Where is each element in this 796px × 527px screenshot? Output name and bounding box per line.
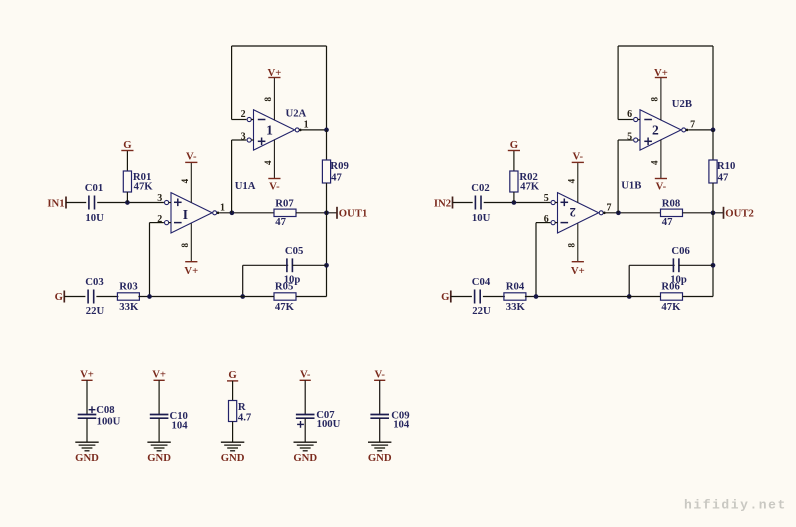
svg-text:R09: R09 (330, 160, 348, 172)
svg-text:22U: 22U (472, 305, 491, 317)
svg-text:U1A: U1A (235, 180, 256, 192)
port bar OUT2 (723, 207, 725, 219)
svg-text:5: 5 (544, 193, 549, 204)
resistor R05 (274, 281, 296, 313)
wire G to R (232, 381, 234, 401)
wire R05 to column (296, 296, 327, 298)
wire V+ to C10 (158, 380, 160, 414)
output pin 1 marker of U1A (213, 211, 220, 215)
node U1B output (616, 210, 621, 215)
wire U2A pin 4 to V- (273, 140, 275, 179)
svg-text:V+: V+ (571, 265, 585, 277)
power port V+ (V+ above U2A) (267, 67, 281, 79)
wire U2B pin 5 down to U1B output (617, 140, 619, 213)
svg-text:2: 2 (241, 109, 246, 120)
wire U1B pin 8 to V+ (577, 223, 579, 261)
wire C08 to GND (86, 418, 88, 442)
wire U1B out to R08 (606, 212, 661, 214)
svg-text:6: 6 (627, 109, 632, 120)
wire R04 to feedback node (525, 296, 661, 298)
node IN2J at R02 (512, 200, 517, 205)
svg-text:IN2: IN2 (434, 197, 451, 209)
wire feedback to U2B pin 6 (618, 119, 633, 121)
wire C05 left (243, 264, 289, 266)
wire C06 left (629, 264, 675, 266)
svg-text:OUT2: OUT2 (725, 207, 754, 219)
wire R07 to OUT1 (296, 212, 337, 214)
svg-text:R04: R04 (506, 281, 525, 293)
svg-text:47: 47 (275, 216, 286, 228)
svg-text:1: 1 (266, 123, 273, 138)
wire to U2A pin 3 (232, 139, 247, 141)
svg-text:GND: GND (368, 452, 392, 464)
svg-text:10U: 10U (85, 212, 104, 224)
svg-text:10U: 10U (472, 212, 491, 224)
svg-text:4: 4 (180, 178, 190, 183)
svg-text:V-: V- (269, 181, 280, 193)
svg-text:G: G (441, 291, 450, 303)
wire column upper (712, 130, 714, 160)
svg-text:47: 47 (331, 172, 342, 184)
svg-text:OUT1: OUT1 (339, 207, 368, 219)
svg-text:C03: C03 (85, 276, 103, 288)
pin 6 stub (638, 119, 640, 121)
svg-text:47: 47 (718, 172, 729, 184)
wire feedback top (618, 45, 713, 47)
svg-text:100U: 100U (317, 418, 341, 430)
svg-text:104: 104 (393, 419, 410, 431)
wire G to R02 (513, 151, 515, 172)
svg-text:G: G (123, 139, 132, 151)
wire R06 to column (683, 296, 714, 298)
svg-text:47: 47 (662, 216, 673, 228)
wire U1A pin 2 down to feedback row (149, 223, 151, 297)
svg-text:3: 3 (157, 193, 162, 204)
svg-text:C02: C02 (471, 182, 489, 194)
svg-text:47K: 47K (520, 180, 540, 192)
wire C05 right (292, 264, 326, 266)
svg-text:8: 8 (649, 96, 659, 101)
wire feedback left vertical (617, 46, 619, 120)
output pin 7 marker of U1B (599, 211, 606, 215)
op-amp U2B (640, 110, 681, 150)
node C06 right (711, 263, 716, 268)
wire column upper (326, 130, 328, 160)
pin 3 stub (251, 139, 253, 141)
wire C06 right (679, 264, 713, 266)
wire feedback right vertical (326, 46, 328, 130)
node U2A output (324, 128, 329, 133)
svg-text:C06: C06 (671, 245, 690, 257)
capacitor C09 (370, 410, 409, 431)
wire C01 to U1A pin 3 (97, 202, 164, 204)
pin 5 marker of U1B (551, 200, 555, 204)
power port V- (V- above U1B) (572, 151, 584, 163)
svg-text:R10: R10 (717, 160, 735, 172)
wire feedback left vertical (231, 46, 233, 120)
output pin 1 marker of U2A (295, 128, 302, 132)
wire to U2B pin 5 (618, 139, 633, 141)
resistor R07 (274, 198, 296, 229)
capacitor C01 (85, 182, 104, 224)
svg-text:GND: GND (147, 452, 171, 464)
svg-text:1: 1 (304, 120, 309, 131)
power port V+ (V+ below U1A) (184, 262, 198, 277)
capacitor C04 (472, 276, 491, 317)
svg-text:IN1: IN1 (47, 197, 64, 209)
wire U1B pin 6 down to feedback row (535, 223, 537, 297)
wire C06 branch vertical (628, 265, 630, 296)
svg-text:hifidiy.net: hifidiy.net (684, 498, 787, 513)
svg-text:G: G (228, 369, 237, 381)
svg-text:I: I (183, 207, 188, 222)
resistor R09 (322, 160, 348, 184)
port bar IN2 (452, 197, 454, 209)
op-amp U1B (558, 193, 599, 233)
port bar IN1 (65, 197, 67, 209)
svg-text:8: 8 (263, 96, 273, 101)
wire C07 to GND (304, 418, 306, 442)
wire U1A out to R07 (219, 212, 274, 214)
node inverting input row (534, 294, 539, 299)
svg-text:R06: R06 (661, 281, 680, 293)
svg-text:47K: 47K (275, 301, 295, 313)
pin 3 marker of U1A (165, 200, 169, 204)
svg-text:2: 2 (570, 205, 576, 219)
resistor R04 (504, 281, 526, 313)
wire C02 to U1B pin 5 (484, 202, 551, 204)
wire R03 to feedback node (138, 296, 274, 298)
pin 5 stub (638, 139, 640, 141)
ground GND below C09 (368, 442, 391, 451)
wire column lower (326, 183, 328, 297)
svg-text:V+: V+ (267, 67, 281, 79)
power port G (G above R01) (121, 139, 133, 151)
svg-text:7: 7 (690, 120, 695, 131)
svg-text:GND: GND (221, 452, 245, 464)
svg-text:3: 3 (241, 132, 246, 143)
svg-text:V-: V- (186, 151, 197, 163)
wire R08 to OUT2 (683, 212, 724, 214)
pin 3 stub (169, 202, 171, 204)
svg-text:U2A: U2A (286, 108, 307, 120)
wire R to GND (232, 422, 234, 443)
svg-text:C08: C08 (96, 404, 114, 416)
wire U2A out to column (302, 129, 327, 131)
wire V- to C09 (379, 380, 381, 414)
node OUT2 (711, 210, 716, 215)
node feedback row C06 (627, 294, 632, 299)
svg-text:22U: 22U (86, 305, 105, 317)
pin 5 marker of U2B (634, 138, 638, 142)
svg-text:U1B: U1B (621, 179, 641, 191)
svg-text:4: 4 (649, 160, 659, 165)
wire R01 to node (126, 192, 128, 203)
pin 3 marker of U2A (247, 138, 251, 142)
wire C05 branch vertical (242, 265, 244, 296)
svg-text:GND: GND (75, 452, 99, 464)
power port V+ (above C10) (152, 369, 166, 381)
power port V- (above C07) (300, 369, 311, 381)
svg-text:5: 5 (627, 132, 632, 143)
pin 6 marker of U1B (551, 221, 555, 225)
resistor R (4.7) (229, 401, 252, 424)
wire R02 to node (513, 192, 515, 203)
wire feedback right vertical (712, 46, 714, 130)
ground GND below C08 (75, 442, 98, 451)
svg-text:2: 2 (652, 123, 659, 138)
svg-text:47K: 47K (661, 301, 681, 313)
svg-text:R08: R08 (662, 198, 680, 210)
power port G (above R) (227, 369, 238, 381)
pin 2 stub (169, 222, 171, 224)
svg-text:GND: GND (293, 452, 317, 464)
wire G to C04 (451, 296, 472, 298)
svg-text:8: 8 (180, 242, 190, 247)
pin 2 marker of U1A (165, 221, 169, 225)
power port V- (above C09) (374, 369, 385, 381)
pin 2 stub (251, 119, 253, 121)
pin 5 stub (555, 202, 557, 204)
power port V- (V- below U2B) (655, 179, 667, 193)
node OUT1 (324, 210, 329, 215)
svg-text:V-: V- (573, 151, 584, 163)
svg-text:V-: V- (374, 369, 385, 381)
wire V- rail to U1B pin 4 (577, 162, 579, 202)
ground GND below R (221, 442, 244, 451)
svg-text:V-: V- (300, 369, 311, 381)
wire feedback to U2A pin 2 (232, 119, 247, 121)
wire feedback to U1B pin 6 (536, 222, 550, 224)
svg-text:G: G (55, 291, 64, 303)
svg-text:4.7: 4.7 (238, 411, 252, 423)
resistor R08 (661, 198, 683, 229)
node U1A output (230, 210, 235, 215)
wire column lower (712, 183, 714, 297)
svg-text:1: 1 (220, 202, 225, 213)
pin 6 stub (555, 222, 557, 224)
wire IN2 to C02 (453, 202, 473, 204)
wire V+ to U2B pin 8 (660, 78, 662, 121)
output pin 7 marker of U2B (682, 128, 689, 132)
svg-text:8: 8 (566, 242, 576, 247)
svg-text:U2B: U2B (672, 98, 692, 110)
svg-text:V+: V+ (654, 67, 668, 79)
svg-text:4: 4 (263, 160, 273, 165)
svg-text:C04: C04 (472, 276, 491, 288)
resistor R06 (661, 281, 683, 313)
wire C04 to R04 (483, 296, 505, 298)
svg-text:4: 4 (566, 178, 576, 183)
port bar OUT1 (336, 207, 338, 219)
svg-text:33K: 33K (119, 301, 139, 313)
svg-text:R07: R07 (275, 198, 294, 210)
node U2B output (711, 128, 716, 133)
wire V- rail to U1A pin 4 (190, 162, 192, 202)
ground GND below C07 (294, 442, 317, 451)
capacitor C03 (85, 276, 104, 317)
pin 6 marker of U2B (634, 117, 638, 121)
resistor R10 (709, 160, 735, 184)
svg-text:104: 104 (172, 420, 189, 432)
wire feedback top (232, 45, 327, 47)
capacitor C07 (296, 409, 341, 430)
capacitor C02 (471, 182, 490, 224)
wire C09 to GND (379, 418, 381, 442)
wire U2B pin 4 to V- (660, 140, 662, 179)
svg-text:V+: V+ (184, 265, 198, 277)
port bar G (450, 291, 452, 303)
capacitor C10 (150, 410, 188, 432)
power port V+ (V+ above U2B) (654, 67, 668, 79)
op-amp U2A (254, 110, 295, 150)
svg-text:7: 7 (607, 202, 612, 213)
node IN1J at R01 (125, 200, 130, 205)
svg-text:C05: C05 (285, 245, 303, 257)
resistor R03 (117, 281, 139, 313)
port bar G (63, 291, 65, 303)
capacitor C05 (284, 245, 304, 286)
wire G to R01 (126, 151, 128, 172)
wire U1A pin 8 to V+ (190, 223, 192, 261)
wire IN1 to C01 (66, 202, 86, 204)
wire C10 to GND (158, 418, 160, 442)
wire G to C03 (64, 296, 85, 298)
ground GND below C10 (147, 442, 170, 451)
power port V+ (above C08) (80, 369, 94, 381)
svg-text:G: G (510, 139, 519, 151)
wire V- to C07 (304, 380, 306, 414)
power port V- (V- above U1A) (185, 151, 197, 163)
node inverting input row (147, 294, 152, 299)
resistor R02 (510, 171, 540, 193)
svg-text:47K: 47K (134, 180, 154, 192)
svg-text:C01: C01 (85, 182, 103, 194)
wire U2A pin 3 down to U1A output (231, 140, 233, 213)
power port V- (V- below U2A) (268, 179, 280, 193)
wire V+ to U2A pin 8 (273, 78, 275, 121)
svg-text:V+: V+ (80, 369, 94, 381)
node feedback row C05 (240, 294, 245, 299)
svg-text:33K: 33K (506, 301, 526, 313)
capacitor C08 (78, 404, 121, 427)
wire C03 to R03 (96, 296, 118, 298)
capacitor C06 (670, 245, 690, 286)
resistor R01 (123, 171, 153, 193)
op-amp U1A (171, 193, 212, 233)
power port G (G above R02) (508, 139, 520, 151)
svg-text:V+: V+ (152, 369, 166, 381)
svg-text:R05: R05 (275, 281, 293, 293)
pin 2 marker of U2A (247, 117, 251, 121)
svg-text:V-: V- (656, 181, 667, 193)
power port V+ (V+ below U1B) (571, 262, 585, 277)
svg-text:R03: R03 (119, 281, 137, 293)
svg-text:100U: 100U (97, 416, 121, 428)
node C05 right (324, 263, 329, 268)
wire U2B out to column (688, 129, 713, 131)
wire V+ to C08 (86, 380, 88, 414)
wire feedback to U1A pin 2 (150, 222, 164, 224)
